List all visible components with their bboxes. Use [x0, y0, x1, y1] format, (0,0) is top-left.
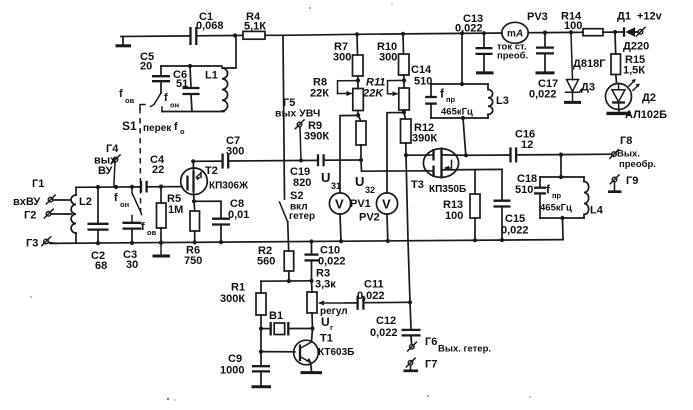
inductor L1 [222, 68, 228, 111]
node C16 / L4 box / Г8 [559, 153, 563, 157]
svg-text:КП306Ж: КП306Ж [209, 181, 249, 192]
svg-text:20: 20 [140, 61, 152, 73]
wire bus R7 to R10 [357, 33, 403, 35]
node Г5 tap [299, 158, 303, 162]
svg-text:PV2: PV2 [359, 212, 380, 224]
svg-text:300: 300 [379, 52, 397, 64]
svg-text:100: 100 [445, 210, 463, 222]
svg-text:510: 510 [414, 76, 432, 88]
wire Г1 to L2 tap [53, 199, 71, 201]
wire meter to C17 node [528, 32, 545, 34]
node T2 drain / C6 / C7 [191, 159, 195, 163]
svg-text:1М: 1М [168, 204, 183, 216]
capacitor C14 510 [425, 96, 437, 98]
svg-text:он: он [120, 200, 129, 209]
node C2 tap [96, 185, 100, 189]
svg-text:390К: 390К [412, 133, 437, 145]
wire T2 drain to node [192, 161, 194, 171]
node T2 source / R6 / C8 [192, 199, 196, 203]
svg-text:465кГц: 465кГц [441, 107, 473, 118]
resistor R14 100 [583, 29, 603, 36]
svg-text:f: f [141, 221, 145, 233]
svg-text:U: U [355, 174, 364, 189]
wire C1 to node [196, 35, 235, 37]
node bus/C17 [543, 30, 547, 34]
voltmeter PV1 [329, 193, 350, 214]
wire bus R10 to L3 tap [403, 32, 462, 35]
svg-text:T1: T1 [320, 333, 333, 345]
svg-text:S2: S2 [290, 190, 303, 202]
svg-text:он: он [170, 101, 179, 110]
node T3 drain / L3 box / C16 [464, 153, 468, 157]
svg-text:390К: 390К [304, 131, 329, 143]
wire C4 to T2 gate [147, 186, 182, 188]
transistor T2 КП306Ж (MOSFET) [181, 168, 208, 195]
terminal Г7 [408, 361, 413, 366]
svg-text:1000: 1000 [220, 365, 244, 377]
contact fов (S1a) [140, 105, 145, 110]
svg-text:L3: L3 [496, 95, 509, 107]
inductor L2 [75, 187, 77, 195]
resistor R12 390К [404, 112, 406, 119]
svg-text:820: 820 [293, 177, 311, 189]
svg-text:V: V [335, 197, 344, 212]
svg-text:0,022: 0,022 [455, 23, 483, 35]
svg-text:ВУ: ВУ [98, 165, 113, 177]
svg-text:32: 32 [365, 185, 375, 195]
resistor R2 560 [284, 251, 294, 271]
svg-text:510: 510 [515, 184, 533, 196]
voltmeter PV2 [376, 193, 397, 214]
svg-text:Г9: Г9 [626, 175, 638, 187]
svg-text:г: г [330, 323, 333, 332]
svg-text:R1: R1 [231, 282, 245, 294]
svg-text:31: 31 [331, 181, 341, 191]
terminal Г4 вых ВУ [113, 157, 118, 162]
svg-text:0,022: 0,022 [370, 327, 398, 339]
svg-text:Д818Г: Д818Г [573, 58, 606, 70]
svg-text:300К: 300К [220, 293, 245, 305]
svg-text:PV3: PV3 [527, 11, 548, 23]
svg-text:22: 22 [152, 164, 164, 176]
capacitor C18 510 [534, 187, 546, 189]
diode D1 Д220 [623, 27, 625, 36]
svg-text:f: f [119, 88, 123, 100]
svg-text:пр: пр [552, 191, 562, 200]
terminal Г8 Вых. преобр. [612, 152, 617, 157]
svg-text:пр: пр [446, 95, 456, 104]
inductor L3 [488, 90, 493, 115]
IF tank fпр 465кГц box (L4) [540, 176, 584, 178]
wire bus to C13 [462, 32, 484, 34]
svg-text:перек: перек [143, 123, 172, 134]
arrow регул Uг into R3 [320, 302, 347, 304]
node C10/R3 [309, 279, 313, 283]
resistor R5 1М [160, 187, 162, 203]
wire T2 source [193, 192, 196, 202]
R8 wiper link [338, 81, 359, 94]
wire T3 source line [442, 168, 502, 171]
svg-text:V: V [382, 197, 391, 212]
svg-text:30: 30 [126, 259, 138, 271]
resistor R13 100 [474, 170, 476, 194]
transistor T1 КТ603Б [294, 340, 319, 365]
potentiometer R8 22К [353, 89, 364, 111]
node fон switch tap [130, 185, 134, 189]
ground (top left) [122, 37, 124, 45]
resistor R9 390К [358, 115, 361, 121]
wire U32 tap to PV2 [387, 113, 404, 194]
svg-text:C11: C11 [364, 279, 384, 291]
wire PV1 to ground bus [340, 214, 341, 241]
LED Д2 АЛ102Б [606, 84, 632, 110]
svg-text:C9: C9 [228, 353, 242, 365]
svg-text:C15: C15 [505, 213, 525, 225]
capacitor C12 0,022 [410, 302, 411, 329]
svg-text:L4: L4 [590, 205, 604, 217]
svg-text:L2: L2 [79, 196, 92, 208]
svg-text:51: 51 [176, 78, 188, 90]
capacitor C9 1000 [260, 329, 262, 366]
meter PV3 mA (ток ст. преоб.) [502, 22, 528, 43]
wire input top line L2 to C4 [76, 186, 140, 188]
switch S1a blade (fов/fон) [151, 93, 162, 107]
node bus/R7 [355, 32, 359, 36]
ground (bottom bus) [160, 243, 162, 255]
scan specks (noise) [167, 398, 169, 400]
svg-text:L1: L1 [205, 70, 218, 82]
wire T3 drain [442, 154, 466, 156]
resistor R10 300 [402, 34, 405, 54]
node bus/D3 zener [569, 30, 573, 34]
svg-text:+12v: +12v [637, 11, 663, 23]
svg-text:АЛ102Б: АЛ102Б [625, 109, 667, 121]
resistor R7 300 [356, 34, 359, 55]
node bus/C13 [482, 31, 486, 35]
node bus/R10 [401, 32, 405, 36]
svg-text:B1: B1 [269, 310, 283, 322]
svg-text:0,01: 0,01 [228, 209, 249, 221]
terminal Г5 вых УВЧ [297, 122, 302, 127]
wire C7 to C19 (crosses S2 supply line) [229, 159, 317, 162]
wire supply drop to S2 [283, 35, 285, 199]
svg-text:S1: S1 [122, 119, 137, 133]
node bus/L3 box [460, 31, 464, 35]
svg-text:f: f [174, 121, 178, 133]
svg-text:А: А [515, 28, 523, 39]
terminal Г9 [612, 177, 617, 182]
node L3 box top [460, 82, 464, 86]
svg-text:преобр.: преобр. [619, 159, 656, 170]
dashed link S1 ganged switch [139, 108, 142, 212]
svg-text:300: 300 [226, 146, 244, 158]
inductor L4 [584, 182, 589, 215]
wire PV2 to ground bus [386, 214, 389, 241]
capacitor C19 820 [317, 154, 319, 166]
svg-text:вхВУ: вхВУ [13, 196, 40, 208]
capacitor C17 0,022 [544, 33, 546, 47]
node R9 / C19 / T3 gate1 [359, 158, 363, 162]
node L4 box bottom [560, 216, 564, 220]
svg-text:Г3: Г3 [26, 238, 38, 250]
switch S2 вкл гетер [280, 202, 288, 222]
node B1/T1 collector [310, 326, 314, 330]
wire C19 to node R9/gate1 [324, 159, 361, 161]
wire U31 tap to PV1 [340, 115, 358, 193]
LED arrows [629, 81, 635, 87]
wire C13 to meter PV3 [484, 32, 502, 34]
capacitor C2 68 [97, 187, 99, 223]
wire to terminal Г8 [561, 153, 612, 155]
wire R12 line down to C11/C12 (crosses ground bus) [406, 155, 410, 302]
node R7/R8 [356, 78, 360, 82]
resistor R1 300К [260, 281, 262, 293]
svg-text:Г7: Г7 [425, 359, 437, 371]
node R2/line [287, 279, 291, 283]
svg-text:0,022: 0,022 [501, 225, 529, 237]
svg-text:T2: T2 [205, 165, 218, 177]
svg-text:Вых.: Вых. [617, 149, 640, 160]
svg-text:Вых. гетер.: Вых. гетер. [438, 344, 491, 355]
IF tank fпр 465кГц box (L3) [431, 83, 488, 85]
svg-text:Г4: Г4 [106, 143, 119, 155]
svg-text:КТ603Б: КТ603Б [318, 347, 354, 358]
wire oscillator top line (R1-R2-R3) [261, 280, 312, 282]
svg-text:300: 300 [333, 52, 351, 64]
svg-text:5,1К: 5,1К [244, 21, 266, 33]
svg-text:f: f [164, 92, 168, 104]
resistor R6 750 [193, 201, 196, 211]
svg-text:о: о [180, 127, 185, 136]
svg-text:Г1: Г1 [32, 178, 44, 190]
svg-text:Д3: Д3 [581, 82, 595, 94]
resistor R4 5,1K [243, 31, 265, 39]
wire C16 to L4 node [517, 154, 561, 156]
resistor R15 1,5К [614, 32, 617, 54]
switch S1b blade fон/fов [132, 187, 142, 215]
node R10/R11 [402, 78, 406, 82]
node C11/C12 [408, 300, 412, 304]
svg-text:f: f [114, 192, 118, 204]
svg-text:C14: C14 [411, 64, 432, 76]
svg-text:68: 68 [95, 260, 107, 272]
svg-text:0,022: 0,022 [357, 290, 385, 302]
svg-text:U: U [321, 315, 330, 329]
svg-text:Д2: Д2 [642, 92, 656, 104]
R11 wiper link [388, 80, 405, 93]
node Г4 tap [114, 185, 118, 189]
wire T3 gate2 line [406, 154, 429, 156]
svg-text:12: 12 [521, 139, 533, 151]
node R11/R12 (U32) [402, 110, 406, 114]
capacitor C11 0,022 [346, 302, 357, 304]
svg-text:T3: T3 [411, 179, 424, 191]
svg-text:22K: 22K [362, 88, 384, 100]
svg-text:m: m [507, 28, 516, 39]
capacitor C5 20 [160, 66, 162, 75]
capacitor C15 0,022 [501, 169, 503, 200]
svg-text:ов: ов [125, 96, 135, 105]
capacitor C6 51 [190, 66, 191, 87]
node L4 box top [559, 175, 563, 179]
wire node down to L4 box [560, 155, 562, 177]
svg-text:0,068: 0,068 [196, 20, 224, 32]
svg-text:0,022: 0,022 [318, 256, 346, 268]
svg-text:КП350Б: КП350Б [429, 184, 466, 195]
svg-text:1,5К: 1,5К [623, 65, 645, 77]
node R12 / T3 gate2 / C12 line [404, 153, 408, 157]
svg-text:Г8: Г8 [620, 135, 632, 147]
wire T3 gate1 line [361, 160, 429, 171]
node R8/R9 (U31) [356, 113, 360, 117]
svg-text:преоб.: преоб. [497, 51, 528, 62]
svg-text:Г2: Г2 [24, 210, 36, 222]
capacitor C7 300 [193, 160, 222, 162]
svg-text:Г6: Г6 [425, 336, 437, 348]
wire ground bus [50, 240, 563, 244]
svg-text:560: 560 [257, 256, 275, 268]
svg-text:22К: 22К [310, 88, 329, 100]
svg-text:Д1: Д1 [617, 11, 631, 23]
wire bus R4 to R7 [283, 34, 357, 35]
svg-text:100: 100 [564, 20, 582, 32]
capacitor C10 0,022 [311, 242, 313, 255]
svg-text:3,3к: 3,3к [315, 279, 336, 291]
resistor R3 3,3k [311, 281, 314, 292]
node C5/C6 top [188, 64, 192, 68]
node T1 base tap [259, 350, 263, 354]
svg-text:ов: ов [147, 228, 157, 237]
terminal Г6 Вых. гетер. [410, 345, 415, 350]
wire Г3 to ground bus [49, 242, 57, 245]
terminal +12v [638, 30, 643, 35]
wire T1 emitter to ground [311, 363, 312, 372]
potentiometer R11 22K [399, 88, 410, 110]
node R1/B1/C9 [259, 327, 263, 331]
svg-text:0,022: 0,022 [529, 89, 557, 101]
wire tank box top line [161, 65, 222, 67]
wire Г2 to L2 tap [51, 213, 71, 215]
svg-text:Д220: Д220 [623, 41, 649, 53]
svg-text:вых УВЧ: вых УВЧ [275, 108, 320, 120]
wire T1 base [261, 351, 295, 353]
capacitor C4 22 [140, 181, 142, 193]
terminal Г3 [44, 239, 49, 244]
capacitor C16 12 [466, 154, 510, 156]
node L3 box bottom [461, 116, 465, 120]
svg-text:750: 750 [184, 255, 202, 267]
transistor T3 КП350Б (dual-gate MOSFET) [423, 149, 458, 178]
svg-text:C12: C12 [376, 315, 396, 327]
wire L3 box bottom to T3 drain [463, 118, 466, 155]
svg-text:465кГц: 465кГц [540, 203, 572, 214]
contact fон (S1a) [161, 107, 163, 112]
node C1/R4/L1 junction [233, 33, 237, 37]
wire tank box bottom line [162, 111, 224, 113]
wire L4 box bottom to ground bus [562, 218, 565, 240]
capacitor C8 0,01 [194, 201, 221, 218]
node R5 tap [159, 185, 163, 189]
wire C17 node to R14 node [545, 31, 571, 33]
terminal Г2 [46, 212, 51, 217]
wire S2 to R2 (crosses ground bus) [288, 222, 289, 252]
wire T1 collector to R3 [312, 329, 313, 343]
capacitor C13 0,022 [483, 33, 485, 47]
wire top bus: ground to C1 [121, 35, 190, 38]
svg-text:гетер: гетер [289, 211, 315, 222]
wire L1 riser to bus node [224, 36, 237, 69]
capacitor C3 30 [131, 216, 133, 223]
terminal Г1 вхВУ [48, 198, 53, 203]
svg-text:PV1: PV1 [350, 198, 371, 210]
node R14/D1/R15 [613, 30, 617, 34]
svg-text:U: U [321, 170, 330, 185]
wire bus tap down to L3 box [461, 33, 463, 84]
capacitor C1 0,068 [189, 27, 191, 45]
zener diode Д3 Д818Г [571, 32, 573, 79]
